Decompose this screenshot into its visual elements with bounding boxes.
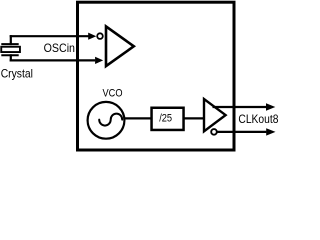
VCO sine wave [99,114,122,126]
svg-text:Crystal: Crystal [1,68,33,81]
arrowhead into OSCin- [95,57,103,64]
op-amp oscillator buffer U1A [106,26,134,66]
inversion bubble on oscillator buffer input [97,33,103,39]
IC block outline U1 [78,2,235,150]
svg-text:CLKout8: CLKout8 [238,112,278,126]
wire divider to output buffer [185,117,205,119]
wire OSCin top [10,35,89,37]
svg-text:OSCin: OSCin [44,42,75,55]
crystal Y1 body [1,47,20,52]
svg-text:/25: /25 [159,112,172,124]
op-amp output buffer U1B [204,99,226,131]
wire crystal top stub [10,35,12,45]
svg-text:VCO: VCO [103,87,123,99]
VCO oscillator circle [88,102,125,139]
crystal Y1 top plate [1,43,18,45]
wire CLKout8 negative [217,131,266,133]
divider block /25 [152,108,184,130]
inversion bubble on output buffer [211,129,217,135]
wire OSCin bottom [10,59,96,61]
wire crystal bottom stub [10,54,12,61]
arrowhead CLKout8 negative [266,128,275,135]
arrowhead into OSCin+ [88,33,96,40]
crystal Y1 bottom plate [1,54,18,56]
wire CLKout8 positive [213,106,267,108]
wire VCO to divider [124,117,151,119]
arrowhead CLKout8 positive [266,103,275,110]
